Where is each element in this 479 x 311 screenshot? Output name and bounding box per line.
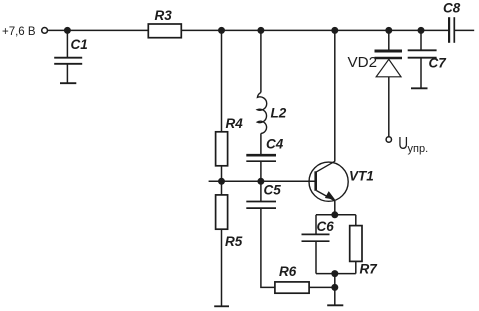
wire R7 bottom <box>355 261 357 273</box>
wire C7 top <box>420 30 422 50</box>
wire to R6 node <box>334 274 336 288</box>
wire C5 down to R6 corner <box>261 208 275 287</box>
junction L2 top <box>257 27 264 34</box>
junction base node right <box>257 178 264 185</box>
wire node A to R4 <box>221 30 223 132</box>
svg-text:C5: C5 <box>264 182 282 197</box>
wire C6/R7 bottom rail <box>316 273 356 275</box>
svg-text:R4: R4 <box>226 116 244 131</box>
wire emitter <box>334 201 336 215</box>
junction base node left <box>218 178 225 185</box>
resistor R3 <box>148 24 181 38</box>
ground stub under C1 <box>60 82 76 84</box>
wire C6 top <box>315 215 317 235</box>
svg-text:C8: C8 <box>443 0 461 15</box>
ground stub under C7 <box>411 87 428 89</box>
wire C1 bottom <box>66 64 68 83</box>
junction C1 top <box>64 27 71 34</box>
junction C6/R7 bottom <box>331 270 338 277</box>
resistor R6 <box>275 282 309 293</box>
wire L2 to C4 <box>260 133 262 154</box>
resistor R4 <box>216 132 228 166</box>
svg-text:C4: C4 <box>266 137 284 152</box>
svg-text:L2: L2 <box>271 106 287 121</box>
terminal +7,6 V <box>42 28 48 34</box>
wire terminal to R3 <box>48 29 149 31</box>
wire R7 top <box>355 215 357 226</box>
wire VD2 top <box>388 30 390 49</box>
capacitor C8 <box>449 17 454 43</box>
junction C7 top <box>418 27 425 34</box>
capacitor C5 <box>246 202 276 209</box>
wire R4 bottom <box>221 166 223 195</box>
wire to ground <box>334 287 336 305</box>
wire R3 to C8 <box>181 29 448 31</box>
wire top to L2 <box>260 30 262 92</box>
wire R6 right <box>309 286 335 288</box>
wire C6/R7 top rail <box>316 214 356 216</box>
wire C7 bottom <box>420 58 422 89</box>
capacitor C6 <box>302 234 330 241</box>
terminal Uupr <box>386 137 391 142</box>
wire C1 top <box>66 30 68 57</box>
svg-text:VD2: VD2 <box>348 54 378 71</box>
ground stub under emitter network <box>327 304 343 306</box>
svg-text:упр.: упр. <box>408 143 429 155</box>
capacitor C1 <box>54 58 82 64</box>
label U upr <box>398 135 428 155</box>
svg-text:C1: C1 <box>71 37 88 52</box>
wire collector <box>334 30 336 161</box>
wire C4 to base rail <box>260 161 262 181</box>
svg-text:C7: C7 <box>429 56 448 71</box>
capacitor C4 <box>246 155 276 161</box>
junction R6 node <box>331 284 338 291</box>
svg-text:R6: R6 <box>279 264 297 279</box>
capacitor C7 <box>408 50 437 57</box>
wire R5 bottom <box>221 229 223 306</box>
junction node A top <box>218 27 225 34</box>
svg-text:+7,6 В: +7,6 В <box>2 26 36 38</box>
wire C6 bottom <box>315 241 317 273</box>
resistor R5 <box>216 195 228 229</box>
wire VD2 to Uupr terminal <box>388 77 390 137</box>
junction collector top <box>331 27 338 34</box>
junction emitter node <box>331 211 338 218</box>
transistor VT1 <box>309 161 348 201</box>
inductor L2 <box>257 93 266 134</box>
svg-text:R5: R5 <box>225 234 243 249</box>
ground stub under R5 <box>214 305 229 307</box>
wire base rail <box>209 180 316 182</box>
wire base rail to C5 <box>260 181 262 201</box>
wire C8 right <box>454 29 474 31</box>
junction VD2 top <box>385 27 392 34</box>
varicap VD2 <box>375 51 403 77</box>
svg-text:C6: C6 <box>317 219 335 234</box>
svg-text:R7: R7 <box>360 262 379 277</box>
svg-text:VT1: VT1 <box>349 169 374 184</box>
svg-text:R3: R3 <box>155 8 173 23</box>
resistor R7 <box>350 226 362 262</box>
